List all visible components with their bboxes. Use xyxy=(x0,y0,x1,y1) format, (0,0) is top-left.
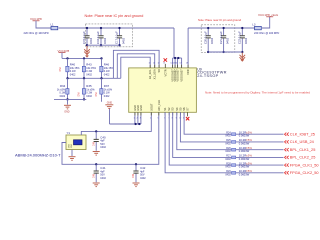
wire Y2 to row5 xyxy=(169,112,231,165)
pin label Y5 xyxy=(178,107,182,111)
ground arrow below cap bank 2 xyxy=(240,53,246,62)
power flag VCC1P8 (pull-up rail) xyxy=(58,49,70,53)
pin stubs bottom edge xyxy=(135,112,184,115)
off-page connector CLK_USB_24 xyxy=(285,139,315,144)
svg-text:0402: 0402 xyxy=(225,158,231,161)
off-page connector FPGA_CLK2_50 xyxy=(285,170,319,175)
capacitor C20 xyxy=(203,27,214,53)
svg-text:VCC1P8: VCC1P8 xyxy=(30,17,42,21)
wire net SCL to IC pin xyxy=(121,57,150,78)
pin label Y6 xyxy=(182,107,186,111)
svg-text:DNI: DNI xyxy=(92,174,95,178)
node GND tie b xyxy=(138,123,140,125)
svg-text:1k ±5%: 1k ±5% xyxy=(104,88,113,91)
svg-text:R27: R27 xyxy=(226,155,231,158)
svg-text:DNI: DNI xyxy=(59,67,62,71)
resistor R43 xyxy=(82,58,96,78)
wire Y5 to row2 xyxy=(180,112,231,142)
pin stubs top edge xyxy=(150,65,188,68)
capacitor C17 xyxy=(115,27,126,46)
svg-text:0.1W: 0.1W xyxy=(104,70,110,73)
svg-text:0402: 0402 xyxy=(100,177,106,180)
pin label VDDOUT4 xyxy=(180,69,184,82)
svg-text:0402: 0402 xyxy=(225,142,231,145)
wire row3 to off-page xyxy=(236,149,284,151)
note: Place near IC pin and ground (left) xyxy=(85,14,144,18)
wire row4 to off-page xyxy=(236,156,284,158)
svg-text:R35: R35 xyxy=(86,84,92,88)
svg-text:220 Ohm @ 100 MHz: 220 Ohm @ 100 MHz xyxy=(254,31,280,35)
crystal part text ABM8 xyxy=(15,153,61,158)
power flag VCC1P8 (top-left) xyxy=(30,17,42,21)
node XOUT C40 xyxy=(95,130,97,132)
pin label VDDOUT1 xyxy=(171,69,175,82)
capacitor C40 xyxy=(92,131,106,150)
svg-text:R40: R40 xyxy=(70,63,76,67)
svg-text:10k ±5%: 10k ±5% xyxy=(70,67,80,70)
wire VDD rail drop to VDDOUT pins xyxy=(173,28,175,58)
svg-text:C22 0.1uF: C22 0.1uF xyxy=(238,31,242,44)
svg-text:R46: R46 xyxy=(104,63,110,67)
pin label S0 xyxy=(157,69,161,73)
svg-text:CLK_IOBT_25: CLK_IOBT_25 xyxy=(290,131,315,136)
wire net SDA to IC pin xyxy=(117,54,154,79)
pin VCTRL stub with no-connect X xyxy=(164,64,166,68)
resistor R34 xyxy=(57,78,69,99)
L1 value label 220 Ohm @ 100 MHz xyxy=(24,31,50,35)
svg-text:0402: 0402 xyxy=(100,146,106,149)
svg-text:C17 0.1uF: C17 0.1uF xyxy=(115,31,119,44)
crystal Y1 xyxy=(66,131,86,150)
svg-text:50V: 50V xyxy=(100,143,105,146)
svg-text:0402: 0402 xyxy=(104,95,110,98)
pin label GND2 xyxy=(136,105,140,111)
pin label VDDOUT3 xyxy=(176,69,180,82)
pin label Y3 xyxy=(171,107,175,111)
svg-text:0402: 0402 xyxy=(225,173,231,176)
ground symbol below C42 xyxy=(133,183,140,187)
svg-text:13: 13 xyxy=(163,63,165,65)
ground symbol below R34 xyxy=(64,105,71,113)
svg-text:Y1: Y1 xyxy=(67,131,71,135)
node rail R46 xyxy=(100,57,102,59)
wire L3 to VCC1P8_clock xyxy=(262,17,270,28)
wire L1 to VDD rail xyxy=(59,27,175,29)
svg-text:0402: 0402 xyxy=(104,73,110,76)
off-page connector BPL_CLK1_25 xyxy=(285,147,316,152)
pin label XOUT xyxy=(149,103,153,111)
pin Y7 stub with no-connect X xyxy=(187,112,189,116)
op-amp U9 body (clock generator IC) xyxy=(129,68,197,112)
svg-text:4pF: 4pF xyxy=(100,170,105,173)
pin label SDA xyxy=(153,69,157,79)
pin label Y7 xyxy=(186,107,190,111)
node VDDOUT tie b xyxy=(177,57,179,59)
wire XIN net xyxy=(62,112,159,164)
wire row1 to off-page xyxy=(236,133,284,135)
wire ground rail of cap bank 2 xyxy=(208,51,242,53)
capacitor C42 xyxy=(132,164,146,182)
svg-text:C21 0.1uF: C21 0.1uF xyxy=(219,31,223,44)
ground symbol below C41 xyxy=(93,183,100,187)
svg-text:Note: Place near IC pin and gr: Note: Place near IC pin and ground xyxy=(85,14,144,18)
node GND tie a xyxy=(134,123,136,125)
wire R34 R35 ground tie xyxy=(54,98,86,100)
pin numbers top xyxy=(149,63,188,65)
svg-text:C41: C41 xyxy=(100,166,106,170)
svg-text:0.1W: 0.1W xyxy=(86,92,92,95)
pin label VDD xyxy=(186,69,190,75)
svg-text:Note: Need to be programmed by: Note: Need to be programmed by Digikey. … xyxy=(205,91,310,95)
resistor R27 xyxy=(225,154,252,161)
resistor R28 xyxy=(225,161,252,168)
svg-text:R24: R24 xyxy=(226,131,231,134)
pin label Y4 xyxy=(175,107,179,111)
resistor R29 xyxy=(225,169,252,176)
svg-text:FPGA_CLK2_50: FPGA_CLK2_50 xyxy=(290,170,319,175)
wire Y3 to row4 xyxy=(173,112,232,157)
dashed outline cap bank 2 xyxy=(201,25,235,53)
ground flag GND on tie xyxy=(109,109,111,124)
ground symbol below C40 xyxy=(93,152,100,156)
capacitor C16 xyxy=(96,27,107,46)
svg-text:DNI: DNI xyxy=(92,142,95,146)
svg-text:GND: GND xyxy=(64,111,70,114)
node R34 bottom xyxy=(66,98,68,100)
wire VDD pin from cap bank 2 rail xyxy=(187,28,189,68)
wire row2 to off-page xyxy=(236,141,284,143)
svg-text:VCC1P8_clock: VCC1P8_clock xyxy=(258,13,279,17)
node XIN C42 xyxy=(135,163,137,165)
node rail R40 xyxy=(66,57,68,59)
svg-text:24-TSSOP: 24-TSSOP xyxy=(197,74,218,78)
wire ground rail of cap bank 1 xyxy=(87,44,120,46)
svg-text:BPL_CLK1_25: BPL_CLK1_25 xyxy=(290,147,316,152)
svg-text:Note: Place near IC pin and gr: Note: Place near IC pin and ground xyxy=(198,18,242,22)
ground symbol below crystal xyxy=(69,157,76,161)
svg-text:GND: GND xyxy=(69,143,71,148)
svg-text:0.1W: 0.1W xyxy=(59,92,65,95)
wire pull-up rail xyxy=(62,57,102,59)
resistor R26 xyxy=(225,146,252,153)
svg-text:0.1W: 0.1W xyxy=(86,70,92,73)
off-page connector CLK_IOBT_25 xyxy=(285,131,315,136)
pin label Y2 xyxy=(167,107,171,111)
capacitor C22 xyxy=(238,27,249,53)
node junction R43 xyxy=(83,77,85,79)
inductor L3 xyxy=(252,22,261,30)
pin label GND3 xyxy=(139,105,143,111)
svg-text:0402: 0402 xyxy=(60,95,66,98)
node junction R40 xyxy=(66,77,68,79)
svg-text:C15 0.1uF: C15 0.1uF xyxy=(82,31,86,44)
svg-text:50V: 50V xyxy=(140,174,145,177)
svg-text:R37: R37 xyxy=(104,84,110,88)
node rail R43 xyxy=(83,57,85,59)
svg-text:1k ±5%: 1k ±5% xyxy=(86,88,95,91)
wire stub to ground below R34 xyxy=(67,99,69,104)
U9 part number text xyxy=(197,67,227,78)
svg-text:0.1W: 0.1W xyxy=(70,70,76,73)
ground arrow below cap bank 1 xyxy=(84,46,90,57)
svg-text:0402: 0402 xyxy=(86,73,92,76)
svg-text:0402: 0402 xyxy=(140,177,146,180)
svg-text:4pF: 4pF xyxy=(140,170,145,173)
node VDDOUT tie a xyxy=(174,57,176,59)
wire net S0 to IC pin xyxy=(113,50,159,78)
resistor R35 xyxy=(78,78,96,99)
node XIN C41 xyxy=(95,163,97,165)
svg-text:L1: L1 xyxy=(51,22,55,26)
capacitor C21 xyxy=(219,27,230,53)
power flag VCC1P8_clock xyxy=(258,13,279,17)
svg-text:0402: 0402 xyxy=(225,150,231,153)
wire XOUT net to crystal xyxy=(81,112,151,135)
wire Y1 to row6 xyxy=(165,112,231,173)
svg-text:C16 0.1uF: C16 0.1uF xyxy=(96,31,100,44)
svg-text:0402: 0402 xyxy=(70,73,76,76)
wire VCC1P8 to L1 xyxy=(36,21,51,28)
pin label SCL xyxy=(148,69,152,79)
svg-text:FPGA_CLK1_50: FPGA_CLK1_50 xyxy=(290,162,319,167)
svg-text:0402: 0402 xyxy=(86,95,92,98)
pin label Y1 xyxy=(163,107,167,111)
svg-text:DNI: DNI xyxy=(78,92,81,96)
pin label GND1 xyxy=(133,105,137,111)
wire junction row xyxy=(68,77,121,79)
svg-text:0402: 0402 xyxy=(225,135,231,138)
pin numbers bottom xyxy=(134,117,185,119)
wire row5 to off-page xyxy=(236,164,284,166)
wire crystal to ground xyxy=(71,150,73,157)
wire VDDOUT pin drops xyxy=(173,58,182,68)
resistor R25 xyxy=(225,138,252,145)
svg-text:C40: C40 xyxy=(100,135,106,139)
L3 value label 220 Ohm @ 100 MHz xyxy=(254,31,280,35)
svg-text:4pF: 4pF xyxy=(100,140,105,143)
svg-text:50V: 50V xyxy=(100,174,105,177)
node R35 bottom xyxy=(83,98,85,100)
svg-text:R43: R43 xyxy=(86,63,92,67)
svg-text:CLK_USB_24: CLK_USB_24 xyxy=(290,139,315,144)
note: programming note (red) xyxy=(205,91,310,95)
note: Place near IC pin and ground (right) xyxy=(198,18,242,22)
wire Y4 to row3 xyxy=(177,112,232,149)
pin label VDDOUT2 xyxy=(173,69,177,82)
svg-text:16: 16 xyxy=(175,63,177,65)
svg-text:C20 0.1uF: C20 0.1uF xyxy=(203,31,207,44)
svg-text:R29: R29 xyxy=(226,170,231,173)
resistor R24 xyxy=(225,130,252,137)
wire row6 to off-page xyxy=(236,172,284,174)
svg-text:C42: C42 xyxy=(140,166,146,170)
svg-text:0402: 0402 xyxy=(225,166,231,169)
capacitor C15 xyxy=(82,27,93,46)
off-page connector FPGA_CLK1_50 xyxy=(285,162,319,167)
svg-text:L3: L3 xyxy=(252,22,256,26)
svg-text:10k ±5%: 10k ±5% xyxy=(104,67,114,70)
inductor L1 xyxy=(51,22,58,30)
svg-text:0.1W: 0.1W xyxy=(104,92,110,95)
svg-text:R34: R34 xyxy=(60,84,66,88)
capacitor C41 xyxy=(92,164,106,182)
svg-text:10k ±5%: 10k ±5% xyxy=(86,67,96,70)
wire R37 to ground flag xyxy=(101,99,103,101)
node junction R46 xyxy=(100,77,102,79)
svg-text:R25: R25 xyxy=(226,139,231,142)
resistor R40 xyxy=(59,58,80,78)
resistor R46 xyxy=(100,58,114,78)
svg-text:DNI: DNI xyxy=(132,174,135,178)
svg-text:R28: R28 xyxy=(226,162,231,165)
dashed outline cap bank 1 xyxy=(86,24,133,47)
svg-text:ABM8-24.000MHZ-D10-T: ABM8-24.000MHZ-D10-T xyxy=(15,153,61,158)
wire Y6 to row1 xyxy=(184,112,231,134)
pin label VCTRL xyxy=(163,69,167,76)
resistor R37 xyxy=(95,78,113,99)
pin label XIN_CLK xyxy=(157,100,161,111)
svg-text:DNI: DNI xyxy=(95,92,98,96)
wire VCC1P8 flag to rail xyxy=(61,53,63,59)
wire clock supply rail xyxy=(188,27,254,29)
svg-text:220 Ohm @ 100 MHz: 220 Ohm @ 100 MHz xyxy=(24,31,50,35)
svg-text:R26: R26 xyxy=(226,147,231,150)
svg-text:1k ±5%: 1k ±5% xyxy=(57,88,66,91)
wire GND pins of U9 xyxy=(110,112,141,124)
off-page connector BPL_CLK2_25 xyxy=(285,155,316,160)
svg-text:BPL_CLK2_25: BPL_CLK2_25 xyxy=(290,155,316,160)
svg-text:GND: GND xyxy=(107,101,113,104)
svg-text:GND: GND xyxy=(71,143,73,148)
